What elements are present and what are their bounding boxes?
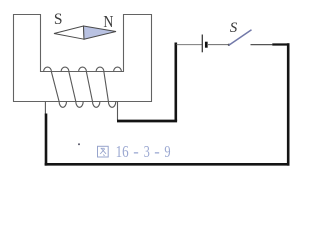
wire: thin switch contact to right corner xyxy=(251,44,273,46)
svg-text:S: S xyxy=(54,11,63,28)
wire: thick middle vertical xyxy=(175,43,178,122)
compass needle right (blue) half xyxy=(84,26,117,39)
compass needle left (white) half xyxy=(54,26,84,39)
switch pivot dot xyxy=(228,44,230,46)
svg-text:S: S xyxy=(230,20,238,36)
caption dot speck xyxy=(78,143,80,145)
battery short plate (-) xyxy=(205,42,208,48)
wire: thick left vertical xyxy=(45,114,48,166)
coil L1 bottom dips xyxy=(59,102,116,108)
coil left lead wire xyxy=(44,102,46,115)
svg-text:16-3-9: 16-3-9 xyxy=(116,142,171,161)
wire: thick right vertical xyxy=(287,43,290,165)
coil L1 humps xyxy=(44,67,122,71)
battery long plate (+) xyxy=(201,35,203,53)
switch lever xyxy=(229,30,252,46)
U-shaped iron core xyxy=(14,15,152,102)
wire: thick top-right stub xyxy=(272,43,289,45)
coil right lead wire xyxy=(117,102,119,121)
svg-text:N: N xyxy=(103,12,113,31)
caption character 图 (hand-drawn, no CJK font available) xyxy=(98,146,109,157)
wire: thick middle horizontal to coil xyxy=(117,120,177,123)
wire: thin from battery to switch pivot xyxy=(207,44,229,46)
coil L1 front diagonals xyxy=(51,72,108,102)
wire: thin from middle vertical to battery xyxy=(177,44,203,46)
wire: thick bottom horizontal xyxy=(45,163,290,166)
